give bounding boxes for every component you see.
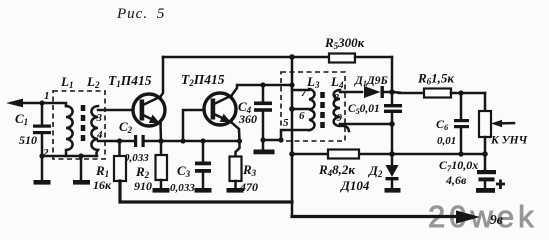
ground bar C7 bbox=[476, 188, 495, 193]
wire bottom node 2 bbox=[42, 155, 97, 158]
plus sign C7 bbox=[496, 180, 505, 190]
wire main vertical supply bbox=[291, 57, 294, 217]
svg-text:4,6в: 4,6в bbox=[445, 173, 467, 187]
svg-text:360: 360 bbox=[238, 112, 257, 126]
svg-text:0,033: 0,033 bbox=[124, 152, 149, 164]
svg-text:R48,2к: R48,2к bbox=[318, 162, 355, 178]
junction dot tap9 node bbox=[389, 121, 395, 127]
wire tap9 bbox=[340, 123, 392, 126]
junction dot C4 top bbox=[260, 82, 265, 87]
svg-text:470: 470 bbox=[239, 180, 258, 194]
junction dot rail bbox=[289, 54, 295, 60]
potentiometer volume bbox=[479, 93, 491, 154]
transistor T1 bbox=[133, 94, 165, 126]
diode D2 bbox=[386, 154, 399, 188]
svg-text:9: 9 bbox=[337, 112, 343, 124]
svg-text:Д1Д9Б: Д1Д9Б bbox=[354, 75, 388, 88]
wire T2 emitter to R3 bbox=[231, 122, 240, 142]
svg-text:9в: 9в bbox=[490, 212, 503, 227]
svg-text:C50,01: C50,01 bbox=[348, 103, 380, 116]
resistor R4 bbox=[328, 150, 359, 159]
svg-text:1: 1 bbox=[44, 90, 50, 102]
junction dot tap6 bbox=[289, 106, 295, 112]
wire C4 bottom to tap5 bbox=[263, 139, 281, 142]
svg-text:5: 5 bbox=[283, 117, 289, 129]
dashed shield box L1 L2 bbox=[53, 91, 105, 159]
ground bar C4 node bbox=[254, 150, 275, 155]
junction dot C4 bottom bbox=[260, 137, 265, 142]
capacitor C5 bbox=[384, 104, 402, 154]
wire bottom rail right with supply bbox=[292, 215, 458, 218]
capacitor C3 bbox=[195, 141, 211, 188]
junction dot C3 tap bbox=[200, 138, 205, 143]
wire bottom rail left bbox=[120, 181, 292, 202]
junction dot tap5 corner bbox=[278, 137, 283, 142]
svg-text:Д104: Д104 bbox=[340, 178, 370, 193]
wire R5 vertical bbox=[391, 57, 394, 104]
junction dot D2 top bbox=[389, 151, 395, 157]
ground stub mid bbox=[80, 156, 83, 180]
inductor L3 bbox=[309, 89, 315, 130]
svg-text:4: 4 bbox=[96, 129, 103, 141]
svg-text:910: 910 bbox=[134, 179, 152, 193]
junction dot ground tap bbox=[78, 153, 83, 158]
resistor R2 bbox=[156, 141, 168, 188]
junction dot emitter node bbox=[158, 138, 163, 143]
junction dot detector left bbox=[289, 151, 295, 157]
inductor L1 bbox=[66, 106, 73, 156]
junction dot diode node bbox=[389, 89, 395, 95]
core L3-L4 bbox=[320, 92, 325, 128]
wire tap8 to diode bbox=[340, 91, 362, 94]
svg-text:8: 8 bbox=[334, 92, 340, 104]
svg-text:Рис. 5: Рис. 5 bbox=[116, 6, 165, 22]
junction dot R1 top bbox=[117, 138, 122, 143]
ground bar R3 bbox=[227, 188, 244, 193]
svg-text:6: 6 bbox=[299, 110, 305, 122]
svg-text:510: 510 bbox=[19, 133, 37, 147]
wire tap4 to C2 bbox=[98, 140, 134, 143]
supply arrowhead bbox=[456, 210, 480, 223]
capacitor C2 bbox=[134, 135, 161, 147]
svg-text:R5300к: R5300к bbox=[324, 35, 365, 51]
ground bar mid bbox=[73, 180, 90, 185]
svg-text:Т1П415: Т1П415 bbox=[108, 73, 152, 89]
svg-text:0,01: 0,01 bbox=[437, 135, 456, 147]
wire tap6 bbox=[292, 108, 309, 111]
ground bar D2 bbox=[385, 188, 401, 193]
junction dot base riser bbox=[180, 138, 185, 143]
ground stub C4 node bbox=[262, 140, 265, 150]
resistor R5 bbox=[329, 54, 392, 63]
svg-text:3: 3 bbox=[96, 112, 103, 124]
wire T1 collector bbox=[161, 57, 164, 97]
inductor L4 bbox=[334, 90, 349, 131]
ground bar R2 bbox=[153, 188, 170, 193]
wire top rail bbox=[163, 56, 329, 59]
wire tap5 bbox=[281, 130, 309, 140]
wire antenna input bbox=[16, 103, 66, 106]
svg-text:К УНЧ: К УНЧ bbox=[490, 135, 528, 147]
svg-text:7: 7 bbox=[301, 87, 307, 99]
junction dot C6 bottom bbox=[458, 151, 463, 156]
svg-text:Т2П415: Т2П415 bbox=[181, 72, 225, 88]
dashed shield box L3 L4 bbox=[281, 72, 345, 141]
transistor T2 bbox=[204, 93, 236, 125]
wire riser to T2 base bbox=[183, 110, 209, 141]
capacitor C6 bbox=[454, 93, 469, 154]
wire T1 emitter down bbox=[159, 124, 162, 142]
svg-text:16к: 16к bbox=[93, 178, 112, 192]
ground under C1 bbox=[34, 180, 51, 185]
ground bar C3 bbox=[195, 188, 212, 193]
svg-text:C710,0х: C710,0х bbox=[439, 158, 478, 173]
wire T1 emitter node to C3 bbox=[161, 140, 240, 143]
junction dot C7 top bbox=[482, 151, 488, 157]
resistor R3 bbox=[230, 157, 242, 189]
diode D1 bbox=[364, 86, 392, 98]
wire tap3 to T1 base bbox=[98, 109, 139, 112]
junction dot C6 top bbox=[458, 90, 463, 95]
wire T2 collector bbox=[232, 85, 293, 96]
junction dot collector to vertical bbox=[289, 82, 294, 87]
potentiometer wiper arrow bbox=[491, 120, 514, 127]
node dot C1 top bbox=[39, 100, 44, 105]
junction dot node 2 bbox=[39, 153, 44, 158]
capacitor C1 bbox=[33, 103, 51, 180]
resistor R6 bbox=[424, 89, 485, 98]
svg-text:0,033: 0,033 bbox=[170, 182, 195, 194]
core L1-L2 bbox=[81, 105, 86, 145]
capacitor C4 bbox=[254, 85, 272, 140]
resistor R1 bbox=[114, 141, 126, 201]
wire diode node to R6 bbox=[392, 91, 400, 94]
wire tap7 bbox=[292, 89, 309, 92]
capacitor C7 electrolytic bbox=[477, 154, 496, 188]
antenna arrowhead bbox=[6, 99, 23, 108]
wire detector line bbox=[292, 153, 485, 156]
inductor L2 bbox=[91, 106, 98, 156]
svg-text:R61,5к: R61,5к bbox=[417, 71, 454, 87]
